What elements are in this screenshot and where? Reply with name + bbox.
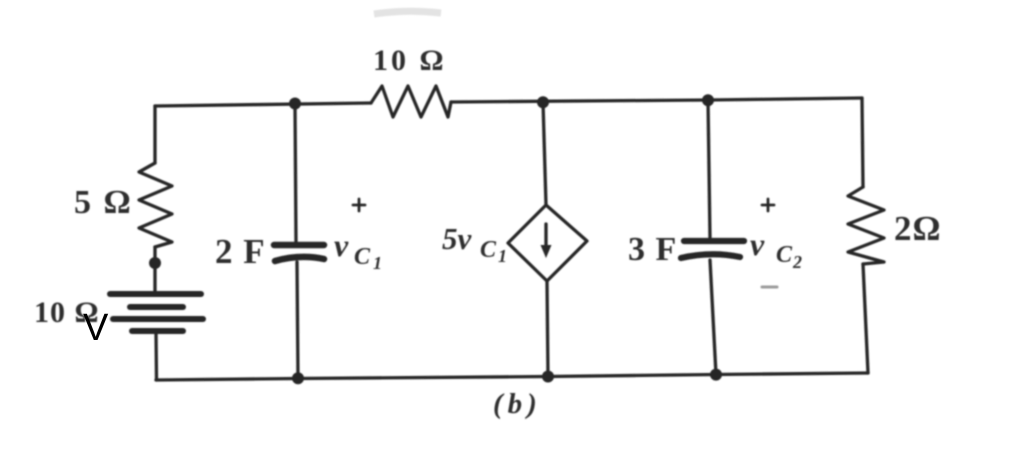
svg-text:10 Ω: 10 Ω [373, 44, 447, 77]
svg-text:v: v [750, 226, 765, 262]
svg-text:2: 2 [792, 252, 802, 272]
svg-text:1: 1 [498, 246, 507, 266]
svg-text:(b): (b) [493, 388, 542, 420]
svg-text:v: v [334, 227, 349, 263]
svg-text:C: C [480, 237, 497, 263]
svg-text:V: V [83, 307, 109, 349]
svg-text:3 F: 3 F [628, 231, 677, 268]
svg-text:C: C [354, 244, 371, 270]
svg-text:1: 1 [373, 253, 382, 273]
svg-text:2 F: 2 F [215, 232, 266, 271]
svg-text:2Ω: 2Ω [894, 209, 942, 248]
svg-text:5 Ω: 5 Ω [74, 184, 133, 221]
svg-text:5v: 5v [442, 221, 473, 256]
svg-text:C: C [776, 242, 793, 268]
